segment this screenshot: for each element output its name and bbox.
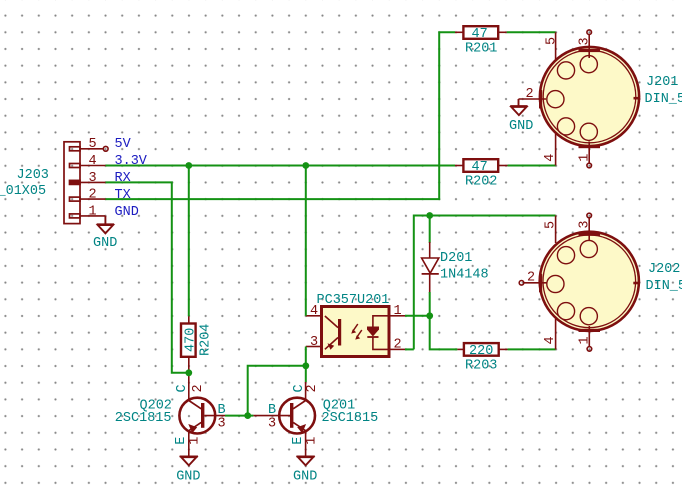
J203 pin 3	[80, 181, 106, 183]
svg-text:2SC1815: 2SC1815	[322, 411, 379, 426]
svg-text:R203: R203	[465, 359, 497, 374]
junction at R204 bottom	[185, 369, 192, 376]
J202 pad circle pin5	[557, 247, 574, 264]
wire U201 pin2	[405, 348, 414, 350]
svg-text:1: 1	[89, 204, 97, 219]
U201 pin 4	[306, 315, 322, 317]
svg-text:R202: R202	[465, 175, 497, 190]
J202 pin 1	[587, 326, 592, 351]
wire R202 to J201 pin4	[508, 165, 556, 167]
J201 pin 5	[555, 32, 557, 63]
svg-text:2: 2	[191, 384, 206, 392]
svg-text:2: 2	[527, 271, 535, 286]
wire RX	[106, 182, 188, 372]
svg-text:J202: J202	[648, 262, 680, 277]
svg-text:2: 2	[89, 188, 97, 203]
U201 phototransistor	[325, 316, 341, 350]
connector J201 DIN_5 body	[539, 47, 640, 148]
svg-text:GND: GND	[93, 236, 117, 251]
svg-text:47: 47	[472, 160, 488, 175]
svg-text:J201: J201	[646, 75, 678, 90]
svg-text:GND: GND	[509, 119, 533, 134]
svg-text:4: 4	[89, 154, 97, 169]
svg-text:J203: J203	[17, 168, 49, 183]
wire 3.3V to R204	[188, 166, 190, 317]
J202 pad circle pin3	[580, 240, 597, 257]
wire TX	[106, 32, 456, 199]
svg-text:R201: R201	[465, 42, 497, 57]
svg-text:3: 3	[577, 37, 592, 45]
U201 pin 3	[306, 346, 322, 348]
U201 pin 1	[389, 315, 405, 317]
svg-text:_01X05: _01X05	[0, 184, 46, 199]
J202 pin 2	[519, 281, 546, 286]
svg-text:PC357U201: PC357U201	[317, 293, 390, 308]
svg-text:3: 3	[218, 417, 226, 432]
J201 pad circle pin4	[557, 118, 574, 135]
U201 pin 2	[389, 348, 405, 350]
wire pin1 node to R203	[430, 316, 458, 350]
svg-text:3: 3	[268, 417, 276, 432]
J202 pin 5	[555, 216, 557, 244]
wire U201 pin4 to 3.3V	[305, 166, 307, 316]
svg-text:2: 2	[305, 384, 320, 392]
ground symbol at Q201	[296, 456, 314, 465]
connector J203 body	[64, 142, 80, 224]
J201 pin 3	[587, 30, 592, 58]
svg-text:220: 220	[469, 344, 493, 359]
svg-text:5: 5	[544, 221, 559, 229]
svg-text:1: 1	[305, 437, 320, 445]
junction at 3.3V and U201 pin4 riser	[302, 162, 309, 169]
connector J202 DIN_5 body	[539, 232, 639, 332]
optocoupler U201 box	[322, 307, 390, 357]
svg-text:2SC1815: 2SC1815	[115, 411, 172, 426]
J202 pad circle pin4	[557, 303, 574, 320]
junction at D201 top	[426, 212, 433, 219]
J202 pad circle pin2	[547, 275, 564, 292]
svg-text:1N4148: 1N4148	[440, 268, 489, 283]
svg-text:47: 47	[472, 27, 488, 42]
svg-text:2: 2	[526, 87, 534, 102]
wire U201 pin1	[405, 315, 430, 317]
svg-text:1: 1	[578, 336, 593, 344]
svg-text:4: 4	[310, 304, 318, 319]
J201 pin 4	[555, 131, 557, 166]
wire base link	[248, 366, 306, 416]
ground symbol at J203 pin 1	[97, 216, 114, 233]
junction at U201 pin1 node	[426, 312, 433, 319]
junction at 3.3V and R204	[185, 162, 192, 169]
J203 pin 5	[80, 146, 108, 151]
svg-text:3.3V: 3.3V	[115, 154, 148, 169]
wire U201 pin3 to base node	[305, 347, 307, 366]
svg-text:5: 5	[545, 37, 560, 45]
svg-text:TX: TX	[115, 188, 131, 203]
transistor Q202	[179, 373, 225, 457]
svg-text:4: 4	[543, 336, 558, 344]
ground symbol at Q202	[180, 456, 198, 465]
svg-text:2: 2	[394, 337, 402, 352]
junction at base link	[244, 412, 251, 419]
resistor R204	[181, 316, 196, 373]
wire R201 to J201 pin5	[507, 31, 556, 33]
svg-text:RX: RX	[115, 171, 131, 186]
svg-text:1: 1	[577, 154, 592, 162]
svg-text:3: 3	[577, 220, 592, 228]
svg-text:5V: 5V	[115, 137, 132, 152]
transistor Q201	[253, 382, 315, 456]
svg-text:4: 4	[543, 154, 558, 162]
svg-text:GND: GND	[115, 205, 139, 220]
wire R203 to J202 pin4	[508, 348, 556, 350]
svg-text:DIN_5: DIN_5	[646, 279, 682, 294]
svg-text:GND: GND	[176, 470, 200, 485]
svg-text:D201: D201	[440, 251, 472, 266]
J201 pin 1	[587, 142, 592, 168]
resistor R202	[455, 159, 508, 172]
svg-text:C: C	[175, 384, 190, 392]
J203 pin 2	[80, 198, 106, 200]
svg-text:R204: R204	[199, 324, 214, 356]
J203 pin 1	[80, 215, 105, 217]
J202 pad circle pin1	[580, 308, 597, 325]
resistor R201	[455, 26, 507, 39]
J203 pin 4	[80, 165, 106, 167]
J201 pad circle pin3	[580, 56, 597, 73]
J202 pin 4	[555, 316, 557, 350]
wire Q201 collector	[305, 366, 307, 382]
svg-text:DIN_5: DIN_5	[645, 92, 682, 107]
junction at Q201 collector	[302, 362, 309, 369]
svg-text:470: 470	[184, 328, 199, 352]
diode D201	[422, 216, 439, 316]
wire Q202 base to Q201 base	[225, 415, 253, 417]
ground symbol at J201 pin 2	[510, 99, 527, 115]
resistor R203	[457, 343, 507, 356]
J201 pad circle pin2	[547, 91, 564, 108]
wire 3.3V bus	[106, 165, 456, 167]
svg-text:5: 5	[89, 137, 97, 152]
svg-text:1: 1	[394, 304, 402, 319]
J201 pad circle pin1	[580, 123, 597, 140]
svg-text:1: 1	[188, 437, 203, 445]
U201 light arrows	[351, 324, 362, 340]
svg-text:GND: GND	[293, 470, 317, 485]
J201 pin 2	[519, 98, 547, 100]
U201 LED	[367, 316, 389, 350]
svg-text:3: 3	[89, 171, 97, 186]
J202 pin 3	[587, 213, 592, 240]
J201 pad circle pin5	[557, 62, 574, 79]
wire J202 pin5 feed	[414, 216, 556, 350]
svg-text:3: 3	[310, 335, 318, 350]
